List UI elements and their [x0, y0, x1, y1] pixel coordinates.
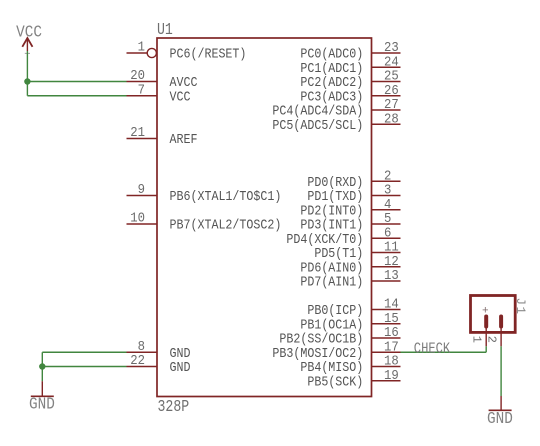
svg-text:PB7(XTAL2/TOSC2): PB7(XTAL2/TOSC2) — [169, 217, 281, 233]
ground symbol (left) — [31, 381, 54, 396]
svg-text:PB6(XTAL1/TO$C1): PB6(XTAL1/TO$C1) — [169, 188, 281, 204]
svg-text:GND: GND — [487, 409, 513, 428]
pin 27 stub (PC4(ADC4/SDA)) — [372, 109, 401, 111]
pin 25 stub (PC2(ADC2)) — [372, 81, 401, 83]
wire to pin 7 — [27, 95, 126, 97]
J1 pin 2 stub — [500, 327, 502, 347]
pin 14 stub (PB0(ICP)) — [372, 309, 401, 311]
svg-text:1: 1 — [469, 336, 483, 343]
svg-text:328P: 328P — [158, 399, 190, 417]
svg-text:AREF: AREF — [169, 131, 197, 147]
svg-text:PD7(AIN1): PD7(AIN1) — [300, 274, 363, 290]
svg-text:PC5(ADC5/SCL): PC5(ADC5/SCL) — [272, 117, 363, 133]
svg-text:PC6(/RESET): PC6(/RESET) — [169, 46, 246, 62]
pin 3 stub (PD1(TXD)) — [372, 195, 401, 197]
pin 26 stub (PC3(ADC3)) — [372, 95, 401, 97]
svg-text:GND: GND — [29, 394, 55, 413]
ground symbol (right) — [489, 396, 512, 410]
pin 5 stub (PD3(INT1)) — [372, 223, 401, 225]
wire GND junction down — [41, 367, 43, 382]
wire J1 pin 2 to ground — [500, 346, 502, 396]
pin 19 stub (PB5(SCK)) — [372, 380, 401, 382]
pin 18 stub (PB4(MISO)) — [372, 366, 401, 368]
pin 16 stub (PB2(SS/OC1B)) — [372, 337, 401, 339]
svg-text:U1: U1 — [157, 22, 173, 40]
pin 21 stub (AREF) — [127, 138, 158, 140]
pin 8 stub (GND) — [127, 351, 158, 353]
wire GND pin 22 — [42, 366, 126, 368]
wire net CHECK horizontal — [401, 351, 487, 353]
svg-text:VCC: VCC — [16, 22, 42, 41]
svg-text:9: 9 — [138, 182, 145, 198]
wire GND vertical pin8 to junction — [41, 352, 43, 366]
wire VCC junction down to pin7 row — [26, 82, 28, 96]
svg-text:2: 2 — [484, 336, 498, 343]
svg-text:10: 10 — [130, 210, 145, 226]
svg-text:GND: GND — [169, 359, 190, 375]
pin 1 inverter bubble — [147, 48, 156, 57]
wire net CHECK vertical to J1 pin 1 — [485, 346, 487, 352]
wire VCC vertical to junction — [26, 51, 28, 82]
svg-text:7: 7 — [138, 82, 145, 98]
pin 1 stub (PC6(/RESET)) — [127, 52, 148, 54]
pin 17 stub (PB3(MOSI/OC2)) — [372, 351, 401, 353]
svg-text:19: 19 — [384, 367, 399, 383]
svg-text:22: 22 — [130, 353, 145, 369]
svg-text:28: 28 — [384, 111, 399, 127]
svg-text:13: 13 — [384, 268, 399, 284]
svg-text:1: 1 — [138, 39, 146, 55]
pin 2 stub (PD0(RXD)) — [372, 180, 401, 182]
wire VCC junction to pin 20 — [27, 81, 126, 83]
J1 pin 2 contact bar — [499, 317, 503, 327]
J1 pin 1 contact bar — [484, 317, 488, 327]
pin 23 stub (PC0(ADC0)) — [372, 52, 401, 54]
pin 13 stub (PD7(AIN1)) — [372, 280, 401, 282]
svg-text:PB5(SCK): PB5(SCK) — [307, 373, 363, 389]
pin 22 stub (GND) — [127, 366, 158, 368]
pin 10 stub (PB7(XTAL2/TOSC2)) — [127, 223, 158, 225]
wire GND pin 8 — [42, 351, 126, 353]
svg-text:21: 21 — [130, 125, 145, 141]
svg-text:J1: J1 — [513, 298, 527, 316]
svg-text:CHECK: CHECK — [414, 341, 451, 357]
pin 20 stub (AVCC) — [127, 81, 158, 83]
pin 11 stub (PD5(T1)) — [372, 252, 401, 254]
pin 24 stub (PC1(ADC1)) — [372, 66, 401, 68]
supply symbol VCC — [22, 38, 32, 53]
junction GND — [39, 363, 45, 369]
pin 7 stub (VCC) — [127, 95, 158, 97]
pin 28 stub (PC5(ADC5/SCL)) — [372, 123, 401, 125]
pin 9 stub (PB6(XTAL1/TO$C1)) — [127, 195, 158, 197]
connector J1 body — [471, 296, 516, 333]
IC U1 body — [157, 38, 372, 397]
pin 6 stub (PD4(XCK/T0)) — [372, 237, 401, 239]
svg-text:VCC: VCC — [169, 88, 190, 104]
junction VCC — [24, 78, 30, 84]
pin 15 stub (PB1(OC1A)) — [372, 323, 401, 325]
J1 pin 1 stub — [485, 327, 487, 347]
pin 12 stub (PD6(AIN0)) — [372, 266, 401, 268]
pin 4 stub (PD2(INT0)) — [372, 209, 401, 211]
